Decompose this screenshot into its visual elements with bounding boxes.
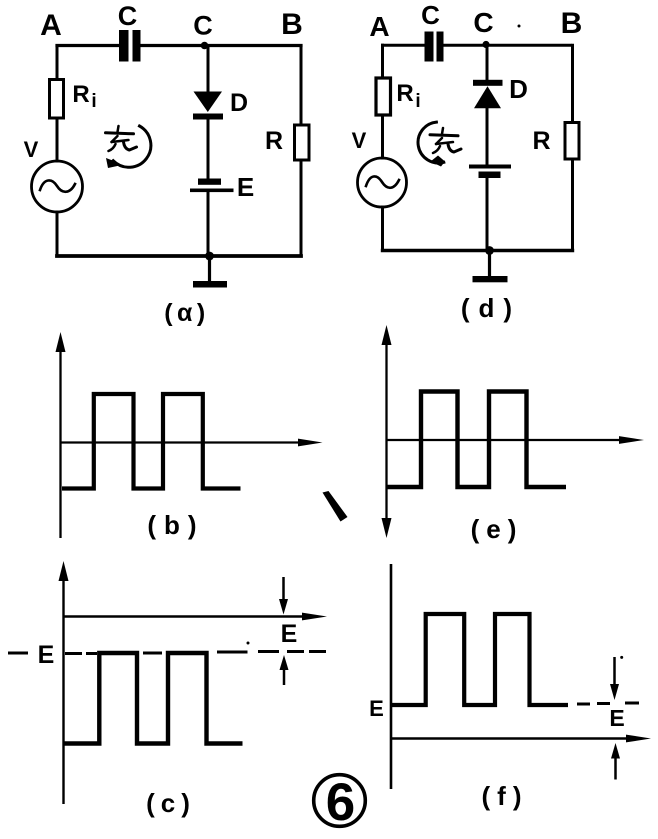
svg-text:R: R — [72, 81, 89, 108]
svg-text:C: C — [421, 0, 440, 30]
svg-text:B: B — [281, 8, 303, 41]
svg-text:C: C — [193, 11, 213, 41]
svg-text:E: E — [369, 696, 384, 721]
svg-text:(e): (e) — [471, 514, 524, 544]
svg-text:D: D — [509, 74, 528, 104]
svg-text:D: D — [230, 89, 248, 117]
svg-text:(f): (f) — [482, 781, 529, 811]
svg-text:(c): (c) — [146, 788, 196, 818]
svg-text:(d): (d) — [461, 293, 521, 323]
svg-text:E: E — [281, 620, 298, 648]
svg-text:R: R — [396, 80, 413, 107]
svg-text:E: E — [609, 705, 624, 731]
svg-text:i: i — [415, 91, 420, 112]
svg-text:(b): (b) — [147, 510, 204, 540]
svg-text:A: A — [369, 11, 389, 42]
svg-text:B: B — [561, 7, 583, 40]
svg-text:E: E — [38, 641, 55, 669]
svg-text:i: i — [91, 91, 96, 112]
svg-text:C: C — [118, 1, 138, 31]
svg-text:E: E — [237, 172, 254, 202]
svg-text:R: R — [265, 127, 283, 155]
svg-text:C: C — [473, 7, 493, 38]
svg-text:V: V — [24, 137, 39, 162]
svg-text:(α): (α) — [164, 299, 210, 327]
svg-text:6: 6 — [326, 773, 355, 832]
svg-text:A: A — [40, 9, 62, 42]
svg-text:V: V — [352, 128, 367, 153]
svg-text:R: R — [532, 127, 550, 155]
